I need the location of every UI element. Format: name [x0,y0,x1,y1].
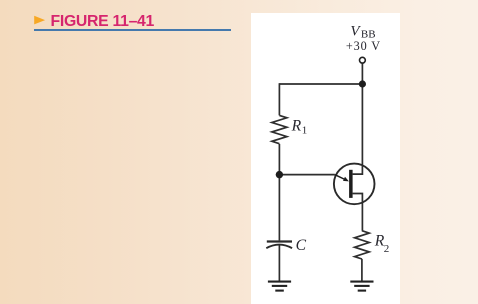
transistor Q1 base bar [349,170,353,198]
wire right vertical into transistor base2 [353,84,363,174]
capacitor C curved plate [266,245,292,249]
blue rule under caption [34,29,232,31]
label VBB [350,24,375,41]
wire left branch down to R1 [278,83,280,115]
label R1 [291,118,308,137]
wire capacitor bottom to ground [278,245,280,281]
ground (right, below R2) [350,282,373,291]
figure caption FIGURE 11-41 [51,13,155,31]
wire R1 bottom to capacitor [278,144,280,241]
wire emitter horizontal [279,174,335,176]
label R2 [374,232,390,254]
wire R2 bottom to ground [361,259,363,281]
wire transistor base1 stub down to R2 [353,194,363,231]
junction dot R1/C/emitter node [276,171,283,178]
white figure panel [251,13,400,304]
svg-text:C: C [296,237,307,254]
transistor Q1 circle (UJT) [334,164,375,205]
svg-text:1: 1 [302,125,308,137]
svg-text:2: 2 [384,243,390,255]
junction dot top node [359,80,366,87]
resistor R1 [272,115,287,143]
transistor Q1 emitter arrow [335,175,345,180]
svg-text:R: R [291,118,302,135]
svg-text:+30 V: +30 V [346,39,380,53]
ground (left, below C) [268,282,291,291]
wire top horizontal [279,83,362,85]
resistor R2 [355,231,370,259]
svg-text:V: V [350,24,361,40]
wire terminal to top junction [361,63,363,84]
capacitor C top plate [267,240,292,242]
node VBB supply terminal [360,57,366,63]
